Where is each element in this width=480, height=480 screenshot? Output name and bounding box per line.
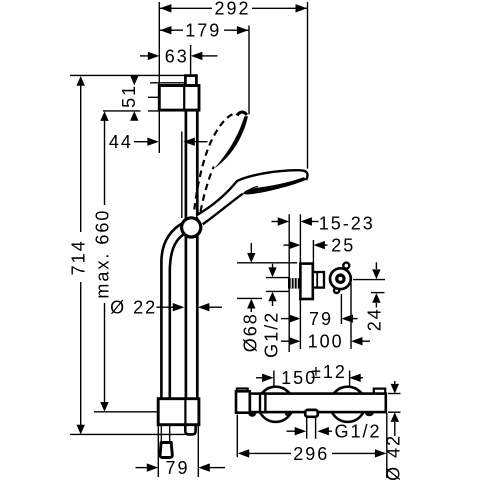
dashed shower head spray edge — [215, 116, 248, 168]
extension line 150 right — [349, 371, 351, 388]
extension line 714 bottom — [70, 433, 185, 435]
extension line 292 head end — [307, 2, 309, 169]
valve handle top nub — [343, 263, 349, 269]
dimension 63 — [140, 55, 218, 57]
wall reference line — [158, 2, 160, 153]
extension line 296 right — [386, 413, 388, 478]
rail top cap — [185, 76, 196, 87]
dimension 292 — [160, 7, 307, 9]
svg-text:714: 714 — [69, 239, 89, 275]
extension line 179 head tip — [248, 26, 250, 115]
dimension 79 valve — [281, 318, 358, 320]
extension line handle center down — [340, 294, 342, 324]
svg-text:292: 292 — [214, 0, 250, 19]
holder knob — [182, 218, 201, 237]
dimension 714 — [80, 85, 82, 426]
svg-text:51: 51 — [119, 84, 139, 108]
extension line max660 bottom — [94, 411, 158, 413]
reference line escutcheon front — [312, 240, 314, 271]
svg-text:15-23: 15-23 — [319, 213, 375, 233]
dimension G1/2 mixer — [287, 430, 333, 432]
extension line escutcheon top — [237, 262, 297, 264]
extension line bracket bottom — [103, 110, 159, 112]
dimension 179 — [160, 29, 249, 31]
wall bar rail — [186, 86, 197, 399]
solid hand shower — [197, 170, 308, 224]
extension line rail top — [70, 74, 186, 76]
extension line cap underside — [150, 82, 186, 84]
dimension 296 — [249, 452, 376, 454]
svg-text:179: 179 — [185, 21, 221, 41]
extension line bracket mid tick — [148, 96, 159, 98]
dimension diameter 22 — [157, 306, 223, 308]
valve handle bottom nub — [334, 288, 339, 293]
svg-text:79: 79 — [165, 458, 189, 478]
svg-text:25: 25 — [331, 236, 355, 256]
dimension G1/2 valve — [272, 264, 274, 306]
outlet thread lines — [307, 418, 316, 439]
solid head face arc — [248, 186, 259, 191]
dimension 15-23 — [272, 221, 319, 223]
valve escutcheon — [300, 264, 312, 299]
bump left under body — [248, 413, 256, 416]
extension line escutcheon bottom — [237, 297, 262, 299]
svg-text:24: 24 — [365, 307, 385, 331]
extension line d42 bottom — [388, 411, 401, 413]
extension line d42 top — [388, 393, 401, 395]
outlet stub — [305, 410, 318, 417]
dimension max. 660 — [104, 120, 106, 403]
svg-text:100: 100 — [308, 332, 344, 352]
dimension 150 — [256, 377, 363, 379]
dashed shower head tip — [237, 112, 247, 116]
extension line 79 right — [197, 426, 199, 477]
valve handle — [330, 268, 351, 289]
extension line 24 bottom — [371, 292, 385, 294]
extension line nipple bottom — [266, 290, 289, 292]
hose below bracket — [161, 425, 169, 442]
extension line rail axis for 63 — [190, 45, 192, 75]
svg-text:G1/2: G1/2 — [335, 422, 382, 442]
extension line handle axis — [353, 279, 385, 281]
extension line 79 left — [157, 426, 159, 477]
rail end cap — [185, 425, 195, 435]
left button — [237, 389, 248, 395]
extension line 150 left — [273, 371, 275, 388]
extension line nipple top — [266, 277, 289, 279]
svg-text:63: 63 — [165, 46, 189, 66]
hose upper curve — [161, 223, 186, 400]
svg-text:79: 79 — [309, 309, 333, 329]
bump right under body — [365, 413, 373, 416]
svg-text:Ø 22: Ø 22 — [110, 298, 157, 318]
valve stem — [313, 272, 324, 288]
dimension 24 — [375, 262, 377, 307]
bump mid under body — [285, 413, 289, 416]
dashed hand shower handle — [194, 112, 236, 211]
wall line valve — [288, 214, 290, 352]
svg-text:max. 660: max. 660 — [93, 209, 113, 299]
reference line escutcheon back — [299, 214, 301, 349]
extension line handle front down — [350, 283, 352, 349]
grip ring — [260, 394, 265, 413]
mixer body — [250, 394, 386, 413]
extension line 44 — [181, 132, 183, 219]
bottom wall bracket — [158, 399, 199, 425]
svg-text:G1/2: G1/2 — [262, 311, 282, 358]
dimension 44 — [134, 141, 208, 143]
dimension 79 bottom — [136, 467, 226, 469]
dimension 100 valve — [281, 340, 370, 342]
svg-text:±12: ±12 — [311, 362, 347, 382]
svg-text:44: 44 — [109, 132, 133, 152]
dimension diameter 42 — [394, 381, 396, 436]
dimension 25 — [284, 244, 328, 246]
right button — [374, 389, 385, 395]
svg-text:296: 296 — [293, 444, 329, 464]
solid head spray edge — [243, 177, 306, 194]
dimension diameter 68 — [250, 243, 252, 312]
svg-text:Ø 42: Ø 42 — [383, 434, 403, 480]
dimension 51 — [130, 76, 138, 121]
hose end cone — [160, 443, 172, 458]
temperature knob — [236, 391, 250, 412]
valve threaded nipple — [288, 278, 300, 288]
svg-text:Ø68: Ø68 — [240, 312, 260, 352]
top wall bracket — [159, 86, 199, 111]
left union dome — [258, 387, 293, 422]
extension line 296 left — [236, 415, 238, 458]
right union dome — [330, 387, 365, 422]
